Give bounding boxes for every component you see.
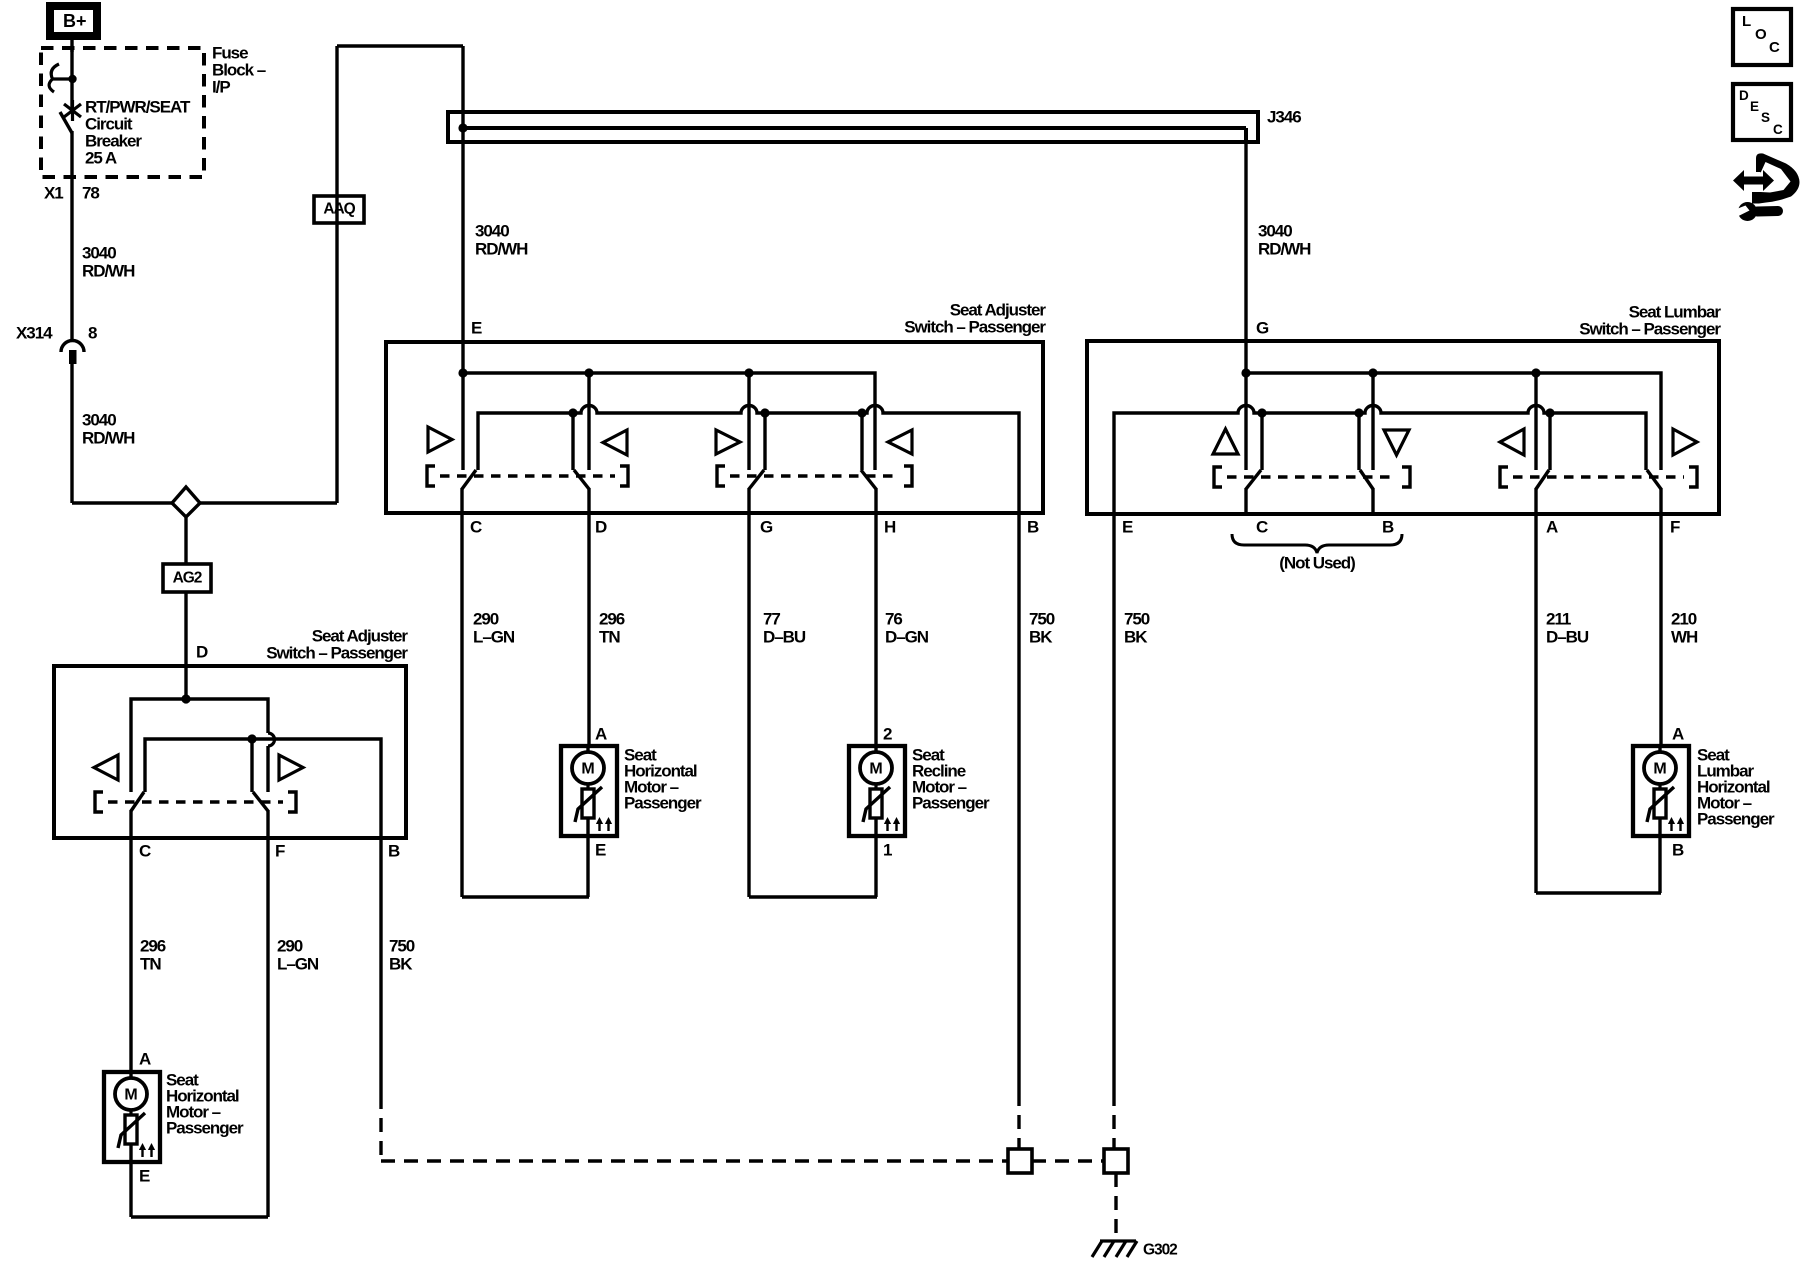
arrow up (lumbar C) <box>1213 429 1238 454</box>
switch return line to B (2) <box>145 739 381 838</box>
svg-text:B: B <box>388 841 400 860</box>
svg-text:F: F <box>275 841 285 860</box>
wire pin F inside (lumbar) <box>1659 488 1662 513</box>
svg-text:C: C <box>1773 122 1783 137</box>
svg-text:A: A <box>1546 517 1558 536</box>
svg-text:O: O <box>1755 26 1767 43</box>
arrow left (lumbar A) <box>1500 429 1524 455</box>
wire 750 BK pin B (2) <box>379 838 382 1161</box>
label pin E (horizontal motor 2) <box>139 1166 150 1185</box>
svg-text:RD/WH: RD/WH <box>1258 239 1311 258</box>
not used brace <box>1232 534 1402 553</box>
label pin D <box>595 517 607 536</box>
svg-text:3040: 3040 <box>82 243 116 262</box>
svg-text:(Not Used): (Not Used) <box>1279 553 1355 572</box>
svg-text:750: 750 <box>1029 609 1055 628</box>
svg-text:C: C <box>470 517 482 536</box>
switch blade D <box>574 470 589 489</box>
wire pin D inside <box>587 488 590 513</box>
splice pack J346 outer box <box>448 112 1258 142</box>
wire G contact <box>747 373 750 470</box>
svg-text:M: M <box>869 761 882 778</box>
arrow right (lumbar F) <box>1673 429 1697 455</box>
arrow fwd (G/H left) <box>716 430 740 454</box>
svg-text:AAQ: AAQ <box>323 200 355 217</box>
svg-text:296: 296 <box>599 609 625 628</box>
icon wrench <box>1734 202 1778 221</box>
svg-text:B+: B+ <box>63 11 87 31</box>
circuit breaker thermal curl <box>49 64 59 92</box>
svg-text:I/P: I/P <box>212 77 230 96</box>
connector AG2 box <box>163 564 211 592</box>
svg-text:8: 8 <box>88 323 97 342</box>
wire 3040 RD/WH left drop (feed to E) <box>461 46 464 373</box>
svg-text:750: 750 <box>1124 609 1150 628</box>
wire breaker to X1 pin 78 <box>70 131 73 342</box>
svg-text:L–GN: L–GN <box>277 954 319 973</box>
wire motor3 bottom pin <box>1658 836 1661 893</box>
label pin H <box>884 517 896 536</box>
label Fuse Block - I/P <box>212 43 266 96</box>
svg-text:E: E <box>1122 517 1133 536</box>
seat lumbar switch - passenger outline <box>1087 341 1719 514</box>
arrow back (G/H right) <box>888 430 912 454</box>
svg-text:750: 750 <box>389 936 415 955</box>
svg-text:F: F <box>1670 517 1680 536</box>
switch blade F (2) <box>253 792 268 811</box>
svg-text:D–BU: D–BU <box>763 627 806 646</box>
label pin E <box>471 318 482 337</box>
svg-text:M: M <box>581 761 594 778</box>
arrow left (2) <box>94 755 118 780</box>
label pin A (horizontal motor) <box>595 724 607 743</box>
switch return line to B <box>478 406 1019 513</box>
wire AG2 to switch pin D <box>184 592 187 666</box>
svg-text:Passenger: Passenger <box>912 793 990 812</box>
svg-text:25 A: 25 A <box>85 148 117 167</box>
wire splice to AAQ riser <box>200 46 463 503</box>
svg-text:E: E <box>139 1166 150 1185</box>
switch feed bus (2) <box>131 699 268 792</box>
svg-text:RD/WH: RD/WH <box>82 428 135 447</box>
wire 296 TN pin C (2) <box>129 838 132 1072</box>
label 750 BK (adjuster) <box>1029 609 1055 646</box>
label Seat Recline Motor - Passenger <box>912 745 990 812</box>
wire pin H inside <box>874 488 877 513</box>
svg-text:B: B <box>1382 517 1394 536</box>
wire pin G inside <box>747 488 750 513</box>
seat recline motor - passenger <box>849 745 905 836</box>
label pin B <box>1027 517 1039 536</box>
svg-text:290: 290 <box>473 609 499 628</box>
wire D into bus (2) <box>184 666 187 699</box>
label Seat Horizontal Motor - Passenger (2) <box>166 1070 244 1137</box>
stub contact H <box>857 408 866 470</box>
junction dot D branch <box>584 368 593 377</box>
svg-text:3040: 3040 <box>475 221 509 240</box>
connector X314 pin 8 <box>61 341 84 365</box>
label pin E (horizontal motor) <box>595 840 606 859</box>
title Seat Adjuster Switch - Passenger (2) <box>266 626 408 662</box>
svg-text:X314: X314 <box>16 323 53 342</box>
svg-text:G302: G302 <box>1143 1241 1177 1258</box>
label 750 BK (2) <box>389 936 415 973</box>
svg-text:AG2: AG2 <box>173 569 202 586</box>
svg-text:78: 78 <box>82 183 99 202</box>
wire G contact down <box>1244 373 1247 470</box>
label RT/PWR/SEAT Circuit Breaker 25 A <box>85 97 191 167</box>
stub contact F (2) <box>247 734 256 792</box>
stub contact A (lumbar) <box>1545 408 1554 470</box>
linkage dashes (2) <box>95 792 296 812</box>
label pin C <box>470 517 482 536</box>
svg-text:Passenger: Passenger <box>624 793 702 812</box>
stub contact B (lumbar) <box>1354 408 1363 470</box>
label J346 <box>1267 107 1301 126</box>
svg-text:3040: 3040 <box>1258 221 1292 240</box>
svg-text:Passenger: Passenger <box>1697 809 1775 828</box>
seat horizontal motor - passenger <box>561 745 617 836</box>
circuit breaker star contact <box>64 100 81 121</box>
wire pin C inside (lumbar) <box>1244 488 1247 513</box>
junction dot on J346 <box>458 123 467 132</box>
ground splice box 1 <box>1008 1149 1032 1173</box>
svg-text:211: 211 <box>1546 609 1571 628</box>
label (Not Used) <box>1279 553 1355 572</box>
svg-text:A: A <box>595 724 607 743</box>
svg-text:290: 290 <box>277 936 303 955</box>
fuse block dashed outline <box>41 48 204 177</box>
svg-text:296: 296 <box>140 936 166 955</box>
label pin B (2) <box>388 841 400 860</box>
wire 750 BK pin E (lumbar) <box>1112 513 1115 1149</box>
label pin 2 (recline motor) <box>883 724 892 743</box>
svg-text:E: E <box>1750 99 1759 114</box>
wire 290 L-GN pin F (2) <box>131 838 268 1217</box>
svg-text:S: S <box>1761 110 1770 125</box>
label pin A (lumbar motor) <box>1672 724 1684 743</box>
svg-text:BK: BK <box>1029 627 1053 646</box>
wire B+ to fuse block <box>70 40 73 52</box>
wire 290 L-GN pin C <box>462 513 589 897</box>
junction dot B branch <box>1368 368 1377 377</box>
junction dot E bus <box>458 368 467 377</box>
svg-text:B: B <box>1672 840 1684 859</box>
wire B contact <box>1371 373 1374 470</box>
label 210 WH <box>1671 609 1698 646</box>
wire pin A inside (lumbar) <box>1534 488 1537 513</box>
wire 3040 RD/WH right drop (feed to G) <box>1244 142 1247 373</box>
label pin A (horizontal motor 2) <box>139 1049 151 1068</box>
svg-text:76: 76 <box>885 609 902 628</box>
label 3040 RD/WH at E drop <box>475 221 528 258</box>
svg-text:BK: BK <box>389 954 413 973</box>
svg-text:D: D <box>1739 88 1749 103</box>
label 8 <box>88 323 97 342</box>
svg-text:BK: BK <box>1124 627 1148 646</box>
arrow fwd (C/D left) <box>428 427 452 452</box>
svg-text:2: 2 <box>883 724 892 743</box>
wire 76 D-GN pin H <box>874 513 877 746</box>
wire 211 D-BU pin A (lumbar) <box>1536 513 1661 893</box>
svg-text:A: A <box>139 1049 151 1068</box>
label 3040 RD/WH at G drop <box>1258 221 1311 258</box>
label 211 D-BU <box>1546 609 1589 646</box>
ground splice box 2 <box>1104 1149 1128 1173</box>
splice pack J346 inner bus bar <box>463 128 1246 142</box>
label pin F (lumbar) <box>1670 517 1680 536</box>
wire motor1 bottom pin <box>586 836 589 897</box>
label pin F (2) <box>275 841 285 860</box>
junction dot D (2) <box>181 694 190 703</box>
switch blade B (lumbar) <box>1360 470 1373 489</box>
wire pin F inside (2) <box>266 810 269 838</box>
wire X314 down and right to splice <box>72 362 172 503</box>
label pin B (lumbar) <box>1382 517 1394 536</box>
svg-text:RD/WH: RD/WH <box>82 261 135 280</box>
stub contact G2 <box>760 408 769 470</box>
dashed link between splice boxes <box>1032 1159 1104 1162</box>
svg-text:C: C <box>1256 517 1268 536</box>
svg-text:X1: X1 <box>44 183 63 202</box>
label 77 D-BU <box>763 609 806 646</box>
wire 77 D-BU pin G <box>749 513 877 897</box>
svg-text:Passenger: Passenger <box>166 1118 244 1137</box>
switch blade G <box>749 470 764 489</box>
wire 210 WH pin F (lumbar) <box>1659 513 1662 746</box>
svg-text:3040: 3040 <box>82 410 116 429</box>
svg-text:M: M <box>1653 761 1666 778</box>
wire motor E return (2) <box>129 1162 132 1217</box>
title Seat Adjuster Switch - Passenger <box>904 300 1046 336</box>
switch blade C (lumbar) <box>1246 470 1261 489</box>
svg-text:G: G <box>760 517 773 536</box>
linkage dashes A-F (lumbar) <box>1500 467 1697 487</box>
wire motor2 bottom pin <box>874 836 877 897</box>
svg-text:C: C <box>1769 39 1780 56</box>
icon DESC box <box>1733 84 1791 140</box>
wire pin C inside <box>460 488 463 513</box>
arrow right (2) <box>279 755 303 780</box>
svg-text:1: 1 <box>883 840 892 859</box>
label 296 TN (2) <box>140 936 166 973</box>
ground symbol G302 <box>1092 1241 1137 1257</box>
svg-text:Switch – Passenger: Switch – Passenger <box>1579 319 1721 338</box>
icon swap arrows <box>1733 153 1800 203</box>
svg-text:D: D <box>196 642 208 661</box>
label 750 BK (lumbar) <box>1124 609 1150 646</box>
seat lumbar horizontal motor - passenger <box>1633 745 1689 836</box>
label pin C (lumbar) <box>1256 517 1268 536</box>
label pin 1 (recline motor) <box>883 840 892 859</box>
label pin G <box>760 517 773 536</box>
linkage dashes C-D <box>427 466 628 486</box>
wire into breaker <box>70 48 73 109</box>
svg-text:L: L <box>1742 13 1751 30</box>
label pin A (lumbar) <box>1546 517 1558 536</box>
linkage dashes C-B (lumbar) <box>1214 467 1410 487</box>
title Seat Lumbar Switch - Passenger <box>1579 302 1721 338</box>
label X1 <box>44 183 63 202</box>
circuit breaker tick <box>52 75 77 83</box>
svg-text:A: A <box>1672 724 1684 743</box>
stub contact C <box>568 408 577 470</box>
junction dot A branch <box>1531 368 1540 377</box>
label pin G <box>1256 318 1269 337</box>
switch blade C <box>462 470 476 489</box>
wire splice down to AG2 <box>184 517 187 564</box>
seat horizontal motor - passenger (2) <box>104 1071 160 1162</box>
arrow down (lumbar B) <box>1384 430 1409 455</box>
seat adjuster switch - passenger outline <box>386 342 1043 513</box>
svg-text:RD/WH: RD/WH <box>475 239 528 258</box>
wire pin C inside (2) <box>129 810 132 838</box>
lumbar return line from E <box>1114 406 1646 513</box>
svg-text:D–GN: D–GN <box>885 627 929 646</box>
vertical hop over return (2) <box>268 733 275 746</box>
label pin E (lumbar) <box>1122 517 1133 536</box>
label X314 <box>16 323 53 342</box>
arrow back (C/D right) <box>603 430 627 455</box>
svg-text:L–GN: L–GN <box>473 627 515 646</box>
label 290 L-GN (2) <box>277 936 319 973</box>
label wire 3040 RD/WH (1) <box>82 243 135 280</box>
label pin B (lumbar motor) <box>1672 840 1684 859</box>
splice diamond <box>172 487 200 517</box>
lumbar feed bus from G <box>1246 373 1661 470</box>
svg-text:77: 77 <box>763 609 780 628</box>
svg-text:E: E <box>595 840 606 859</box>
junction dot G branch <box>744 368 753 377</box>
svg-text:TN: TN <box>140 954 161 973</box>
svg-text:210: 210 <box>1671 609 1697 628</box>
stub contact C (lumbar) <box>1257 408 1266 470</box>
dashed ground wire to splice box 1 <box>381 1159 1008 1162</box>
svg-text:C: C <box>139 841 151 860</box>
label pin D (adjuster 2) <box>196 642 208 661</box>
label 76 D-GN <box>885 609 929 646</box>
label 78 <box>82 183 99 202</box>
switch blade C (2) <box>131 792 144 811</box>
svg-text:Switch – Passenger: Switch – Passenger <box>904 317 1046 336</box>
svg-text:D: D <box>595 517 607 536</box>
svg-text:WH: WH <box>1671 627 1698 646</box>
svg-text:J346: J346 <box>1267 107 1301 126</box>
wire F contact below hop (2) <box>266 746 269 792</box>
svg-text:D–BU: D–BU <box>1546 627 1589 646</box>
label pin C (2) <box>139 841 151 860</box>
icon LOC box <box>1733 9 1791 65</box>
svg-text:H: H <box>884 517 896 536</box>
svg-text:G: G <box>1256 318 1269 337</box>
svg-text:TN: TN <box>599 627 620 646</box>
label 296 TN <box>599 609 625 646</box>
dashed wire to ground <box>1114 1173 1117 1238</box>
seat adjuster switch outline (2) <box>54 666 406 838</box>
switch feed bus from E <box>463 373 875 470</box>
label 290 L-GN <box>473 609 515 646</box>
svg-text:M: M <box>124 1087 137 1104</box>
label wire 3040 RD/WH (2) <box>82 410 135 447</box>
label Seat Horizontal Motor - Passenger <box>624 745 702 812</box>
battery B+ symbol <box>50 6 97 36</box>
switch blade H <box>861 470 876 489</box>
wire 750 BK pin B (adjuster) <box>1017 513 1020 1149</box>
svg-text:B: B <box>1027 517 1039 536</box>
label G302 <box>1143 1241 1177 1258</box>
switch blade A (lumbar) <box>1536 470 1549 489</box>
wire 296 TN pin D <box>587 513 590 746</box>
wire pin B inside (lumbar) <box>1371 488 1374 513</box>
label Seat Lumbar Horizontal Motor - Passenger <box>1697 745 1775 828</box>
wire D contact <box>587 373 590 470</box>
switch blade F (lumbar) <box>1647 470 1661 489</box>
svg-text:E: E <box>471 318 482 337</box>
connector AAQ box <box>314 196 364 223</box>
wire E contact down <box>461 373 464 470</box>
wire A contact <box>1534 373 1537 470</box>
circuit breaker blade <box>60 112 72 133</box>
linkage dashes G-H <box>717 466 912 486</box>
junction dot G bus <box>1241 368 1250 377</box>
svg-text:Switch – Passenger: Switch – Passenger <box>266 643 408 662</box>
